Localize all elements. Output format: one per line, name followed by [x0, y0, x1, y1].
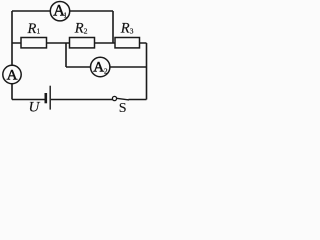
switch S: pivot circle — [112, 96, 116, 100]
svg-text:R3: R3 — [120, 21, 134, 37]
svg-text:U: U — [29, 100, 41, 116]
switch S: blade — [117, 98, 129, 100]
wire: bottom left segment to battery — [12, 99, 45, 101]
ammeter A1 — [50, 2, 69, 21]
svg-text:A: A — [93, 60, 104, 76]
svg-text:R1: R1 — [27, 21, 41, 37]
svg-text:A: A — [7, 67, 18, 83]
battery U: short thick plate — [44, 93, 47, 103]
resistor R3 — [115, 38, 140, 48]
svg-text:1: 1 — [63, 10, 67, 19]
wire: right vertical branch — [146, 43, 148, 100]
ammeter A (left branch) — [3, 65, 21, 83]
battery U: long thin plate — [49, 86, 51, 110]
wire: top branch through A1 — [12, 10, 113, 12]
svg-text:2: 2 — [104, 67, 108, 76]
wire: vertical from top branch to node between R2 and R3 — [112, 11, 114, 43]
wire: middle resistor row — [12, 42, 147, 44]
svg-text:R2: R2 — [74, 21, 88, 37]
wire: bottom right segment from switch — [129, 99, 147, 101]
wire: A2 branch horizontal — [66, 66, 147, 68]
resistor R1 — [21, 38, 47, 48]
resistor R2 — [70, 38, 95, 48]
ammeter A2 — [91, 57, 110, 76]
svg-text:S: S — [119, 101, 127, 115]
wire: bottom segment battery to switch — [51, 99, 113, 101]
wire: left vertical branch — [11, 11, 13, 100]
wire: vertical from node between R1 and R2 down to A2 branch — [65, 43, 67, 67]
